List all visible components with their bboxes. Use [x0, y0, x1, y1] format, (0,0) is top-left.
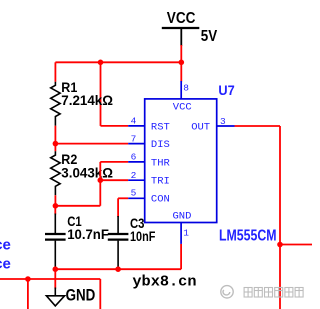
wire OUT horizontal [235, 125, 281, 127]
wire RST branch vertical [100, 62, 102, 126]
pin 6 stub [128, 161, 145, 163]
wire GND branch vertical [54, 269, 56, 289]
svg-text:7: 7 [131, 133, 137, 144]
junction OUT branch [277, 242, 283, 248]
capacitor C3 [108, 216, 129, 269]
svg-text:VCC: VCC [167, 10, 196, 27]
ground symbol [46, 288, 64, 306]
pin 7 stub [128, 143, 145, 145]
wire VCC rail horizontal [55, 61, 181, 63]
svg-text:RST: RST [151, 121, 170, 133]
junction TRI node [98, 177, 104, 183]
svg-text:ce: ce [0, 255, 11, 272]
wire pin1 to ground rail [180, 244, 182, 269]
resistor R2 [51, 144, 60, 206]
svg-text:DIS: DIS [151, 139, 170, 151]
svg-text:2: 2 [131, 170, 137, 181]
pin 1 stub [180, 223, 182, 244]
junction C1 ground [53, 266, 59, 272]
svg-text:10nF: 10nF [130, 228, 156, 244]
svg-text:5: 5 [131, 188, 137, 199]
svg-text:3.043kΩ: 3.043kΩ [61, 165, 113, 181]
svg-text:U7: U7 [218, 82, 234, 98]
junction R2/C1 node [53, 203, 59, 209]
svg-text:ybx8.cn: ybx8.cn [132, 273, 196, 290]
svg-text:OUT: OUT [191, 121, 210, 133]
junction R1/R2/DIS node [53, 141, 59, 147]
wire THR/TRI vertical [99, 162, 101, 206]
junction lower rail [25, 276, 31, 282]
pin 5 stub [128, 197, 145, 199]
svg-text:TRI: TRI [151, 176, 170, 188]
svg-text:10.7nF: 10.7nF [67, 226, 109, 242]
pin 3 stub [217, 125, 235, 127]
svg-text:3: 3 [220, 116, 226, 127]
svg-text:4: 4 [131, 116, 137, 127]
wire DIS horizontal to pin 7 [55, 143, 128, 145]
wire OUT vertical [279, 126, 281, 309]
svg-text:6: 6 [131, 152, 137, 163]
svg-text:5V: 5V [201, 28, 218, 45]
watermark logo [221, 286, 233, 298]
wire ground rail upper [55, 268, 181, 270]
resistor R1 [51, 62, 60, 143]
watermark chinese text [244, 288, 303, 298]
svg-text:8: 8 [183, 83, 189, 94]
svg-text:CON: CON [151, 194, 170, 206]
svg-text:LM555CM: LM555CM [219, 228, 277, 245]
pin 8 stub [180, 81, 182, 99]
svg-text:VCC: VCC [173, 102, 192, 114]
svg-text:1: 1 [183, 227, 189, 238]
power symbol VCC [162, 28, 200, 46]
svg-text:7.214kΩ: 7.214kΩ [61, 92, 113, 108]
junction C3 ground [115, 266, 121, 272]
pin 4 stub [128, 125, 145, 127]
svg-text:THR: THR [151, 157, 171, 169]
IC U7 555 timer body [145, 99, 217, 223]
svg-text:ce: ce [0, 237, 11, 254]
wire CON to pin 5 [118, 198, 128, 217]
wire lower rail branch down [27, 279, 29, 309]
wire VCC vertical to junction [180, 45, 182, 82]
pin 2 stub [128, 179, 145, 181]
capacitor C1 [45, 206, 66, 269]
wire OUT branch to edge [280, 244, 312, 246]
svg-text:GND: GND [173, 211, 192, 223]
wire lower rail drop [99, 279, 101, 309]
wire TRI horizontal to pin 2 [100, 179, 128, 181]
junction VCC node [179, 60, 185, 66]
wire THR horizontal to pin 6 [100, 161, 128, 163]
wire THR/TRI node horizontal [55, 205, 100, 207]
wire ground rail lower [0, 278, 100, 280]
wire RST branch horizontal to pin 4 [101, 125, 129, 127]
svg-text:GND: GND [66, 285, 96, 304]
junction RST branch [98, 60, 104, 66]
